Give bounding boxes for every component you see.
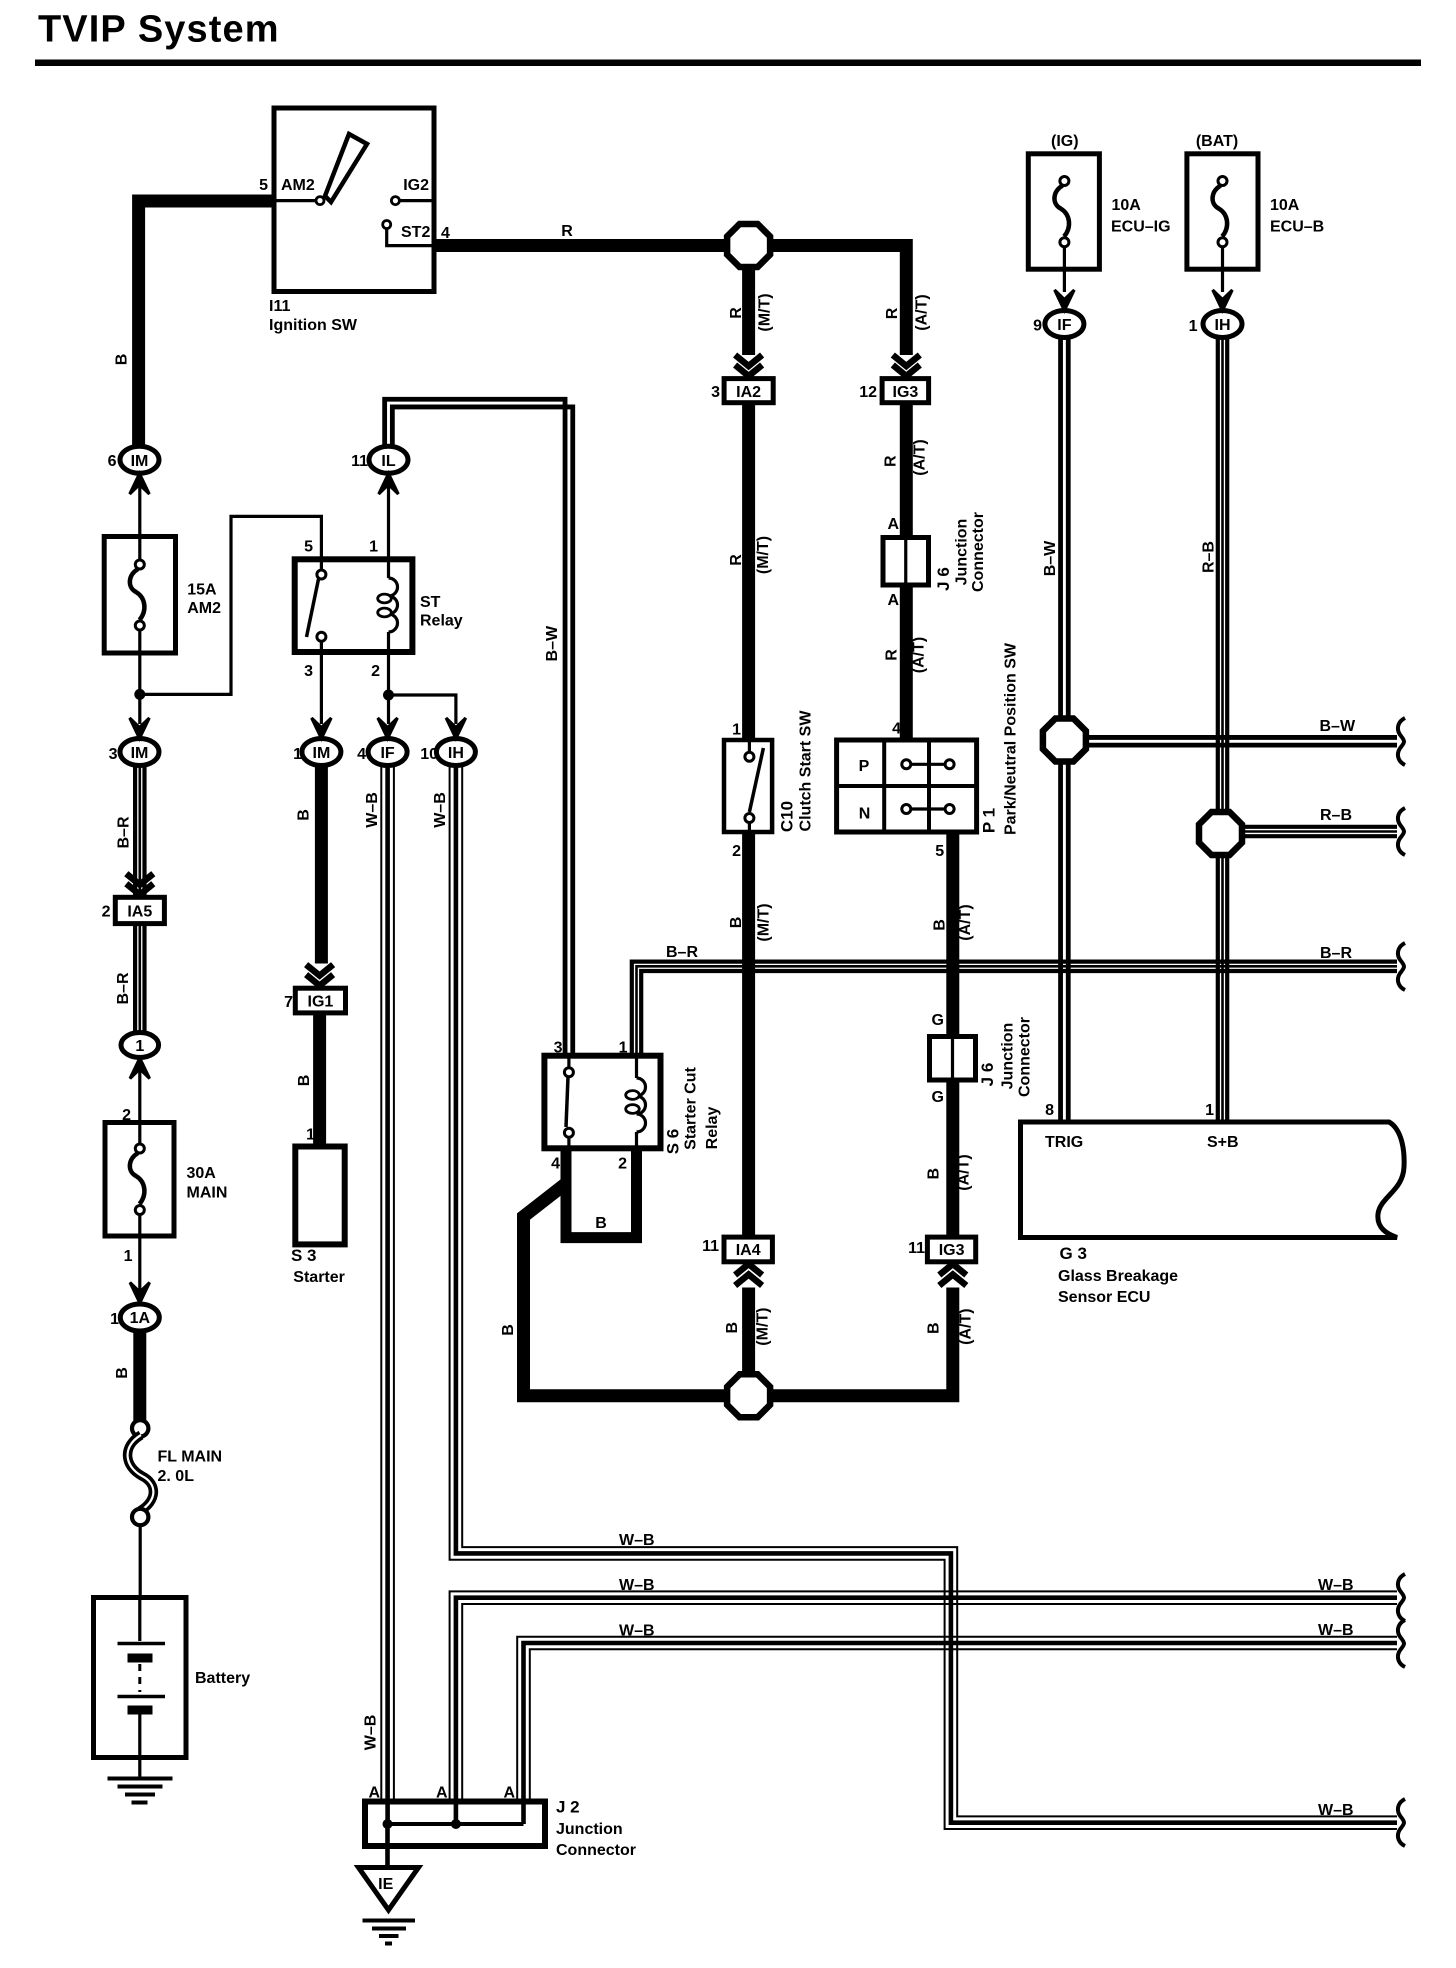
- svg-text:(A/T): (A/T): [914, 294, 931, 330]
- svg-text:IG3: IG3: [893, 384, 919, 401]
- svg-text:1: 1: [619, 1040, 628, 1057]
- svg-text:A: A: [436, 1785, 448, 1802]
- svg-text:11: 11: [351, 453, 368, 470]
- svg-text:1: 1: [110, 1311, 119, 1328]
- svg-text:IF: IF: [380, 745, 394, 762]
- svg-text:AM2: AM2: [187, 600, 221, 617]
- svg-text:B–W: B–W: [544, 625, 561, 661]
- svg-text:Park/Neutral Position SW: Park/Neutral Position SW: [1003, 642, 1020, 835]
- svg-text:IM: IM: [131, 453, 149, 470]
- svg-text:ECU–IG: ECU–IG: [1111, 219, 1171, 236]
- svg-text:B–R: B–R: [115, 972, 132, 1004]
- svg-text:ST: ST: [420, 594, 441, 611]
- svg-text:Connector: Connector: [970, 512, 987, 592]
- svg-text:B–R: B–R: [1320, 945, 1352, 962]
- svg-text:(M/T): (M/T): [755, 536, 772, 574]
- svg-text:P 1: P 1: [980, 808, 999, 833]
- svg-text:8: 8: [1045, 1102, 1054, 1119]
- svg-text:3: 3: [109, 746, 118, 763]
- svg-text:B: B: [728, 917, 745, 929]
- svg-text:W–B: W–B: [363, 1715, 380, 1751]
- svg-text:1: 1: [124, 1248, 133, 1265]
- svg-text:W–B: W–B: [1318, 1622, 1354, 1639]
- svg-text:2: 2: [102, 904, 111, 921]
- svg-text:A: A: [503, 1785, 515, 1802]
- svg-text:B: B: [296, 809, 313, 821]
- svg-text:(A/T): (A/T): [912, 439, 929, 475]
- svg-text:B–W: B–W: [1320, 718, 1356, 735]
- svg-text:W–B: W–B: [619, 1577, 655, 1594]
- svg-text:S 3: S 3: [291, 1246, 317, 1265]
- svg-text:IL: IL: [381, 453, 395, 470]
- svg-text:N: N: [859, 806, 871, 823]
- svg-text:1: 1: [1205, 1102, 1214, 1119]
- svg-text:2: 2: [122, 1107, 131, 1124]
- svg-text:12: 12: [859, 384, 877, 401]
- svg-text:10A: 10A: [1112, 197, 1142, 214]
- svg-text:Starter Cut: Starter Cut: [682, 1066, 699, 1149]
- svg-text:B: B: [926, 1168, 943, 1180]
- svg-text:Junction: Junction: [556, 1821, 623, 1838]
- svg-text:B: B: [595, 1215, 607, 1232]
- svg-text:1: 1: [135, 1038, 144, 1055]
- svg-text:TRIG: TRIG: [1045, 1134, 1083, 1151]
- svg-text:B–R: B–R: [666, 944, 698, 961]
- svg-text:3: 3: [554, 1040, 563, 1057]
- svg-text:10A: 10A: [1270, 197, 1300, 214]
- svg-text:C10: C10: [778, 801, 797, 832]
- svg-text:S+B: S+B: [1207, 1134, 1239, 1151]
- svg-text:ST2: ST2: [401, 224, 430, 241]
- svg-text:5: 5: [935, 843, 944, 860]
- svg-text:IA2: IA2: [736, 384, 761, 401]
- svg-text:B: B: [296, 1075, 313, 1087]
- svg-text:G 3: G 3: [1060, 1244, 1087, 1263]
- svg-text:R: R: [728, 307, 745, 319]
- svg-text:R: R: [728, 554, 745, 566]
- svg-text:10: 10: [420, 746, 438, 763]
- svg-text:4: 4: [441, 225, 450, 242]
- svg-text:MAIN: MAIN: [187, 1185, 228, 1202]
- svg-text:(M/T): (M/T): [757, 293, 774, 331]
- svg-text:(BAT): (BAT): [1196, 133, 1238, 150]
- svg-text:4: 4: [892, 721, 901, 738]
- svg-text:IG2: IG2: [403, 177, 429, 194]
- svg-text:B: B: [724, 1322, 741, 1334]
- svg-text:IA5: IA5: [127, 904, 152, 921]
- svg-text:FL MAIN: FL MAIN: [158, 1449, 223, 1466]
- svg-text:2. 0L: 2. 0L: [158, 1468, 195, 1485]
- svg-text:9: 9: [1033, 318, 1042, 335]
- svg-text:(A/T): (A/T): [956, 1154, 973, 1190]
- svg-text:2: 2: [732, 843, 741, 860]
- svg-text:B–R: B–R: [116, 816, 133, 848]
- svg-text:R–B: R–B: [1320, 807, 1352, 824]
- svg-text:2: 2: [618, 1156, 627, 1173]
- svg-text:J 6: J 6: [978, 1063, 997, 1087]
- svg-text:W–B: W–B: [364, 792, 381, 828]
- svg-text:G: G: [932, 1012, 944, 1029]
- svg-text:Clutch Start SW: Clutch Start SW: [798, 710, 815, 832]
- svg-text:(A/T): (A/T): [911, 637, 928, 673]
- svg-text:5: 5: [259, 177, 268, 194]
- svg-text:AM2: AM2: [281, 177, 315, 194]
- svg-text:2: 2: [371, 663, 380, 680]
- svg-text:IE: IE: [378, 1876, 393, 1893]
- svg-text:Glass Breakage: Glass Breakage: [1058, 1268, 1178, 1285]
- svg-text:Battery: Battery: [195, 1670, 250, 1687]
- svg-text:IM: IM: [313, 745, 331, 762]
- svg-text:(IG): (IG): [1051, 133, 1079, 150]
- svg-text:IA4: IA4: [736, 1242, 761, 1259]
- svg-text:4: 4: [357, 746, 366, 763]
- svg-text:A: A: [887, 516, 899, 533]
- svg-text:B: B: [114, 354, 131, 366]
- svg-text:Connector: Connector: [556, 1842, 636, 1859]
- svg-text:W–B: W–B: [1318, 1802, 1354, 1819]
- svg-text:I11: I11: [269, 298, 290, 315]
- svg-text:(M/T): (M/T): [756, 903, 773, 941]
- svg-text:Ignition SW: Ignition SW: [269, 317, 358, 334]
- svg-text:B–W: B–W: [1042, 540, 1059, 576]
- svg-text:Junction: Junction: [1000, 1023, 1017, 1090]
- svg-text:11: 11: [702, 1238, 719, 1255]
- svg-text:5: 5: [304, 539, 313, 556]
- svg-text:Starter: Starter: [293, 1269, 345, 1286]
- svg-text:Relay: Relay: [420, 613, 463, 630]
- svg-text:B: B: [926, 1322, 943, 1334]
- svg-text:B: B: [932, 919, 949, 931]
- svg-text:S 6: S 6: [663, 1129, 682, 1155]
- svg-text:(A/T): (A/T): [957, 1308, 974, 1344]
- svg-text:4: 4: [551, 1156, 560, 1173]
- svg-text:TVIP System: TVIP System: [38, 9, 280, 51]
- svg-text:W–B: W–B: [1318, 1577, 1354, 1594]
- svg-text:R: R: [561, 223, 573, 240]
- svg-text:IH: IH: [1215, 317, 1231, 334]
- svg-text:1: 1: [732, 722, 741, 739]
- svg-text:R: R: [883, 455, 900, 467]
- svg-text:30A: 30A: [187, 1165, 217, 1182]
- svg-text:J 6: J 6: [934, 567, 953, 591]
- svg-text:Sensor ECU: Sensor ECU: [1058, 1289, 1150, 1306]
- svg-text:IF: IF: [1057, 317, 1071, 334]
- svg-text:7: 7: [284, 994, 293, 1011]
- svg-text:15A: 15A: [187, 582, 217, 599]
- svg-text:6: 6: [108, 453, 117, 470]
- svg-text:J 2: J 2: [556, 1798, 580, 1817]
- svg-text:3: 3: [304, 663, 313, 680]
- svg-text:Connector: Connector: [1017, 1017, 1034, 1097]
- svg-text:R: R: [884, 307, 901, 319]
- svg-text:B: B: [114, 1367, 131, 1379]
- svg-text:(A/T): (A/T): [957, 904, 974, 940]
- svg-text:R–B: R–B: [1201, 541, 1218, 573]
- svg-text:Junction: Junction: [954, 519, 971, 586]
- svg-text:W–B: W–B: [619, 1532, 655, 1549]
- svg-text:IM: IM: [131, 745, 149, 762]
- svg-text:1: 1: [293, 746, 302, 763]
- svg-text:1: 1: [306, 1127, 315, 1144]
- svg-text:IG3: IG3: [939, 1242, 965, 1259]
- svg-text:1: 1: [1189, 318, 1198, 335]
- svg-text:P: P: [859, 758, 870, 775]
- svg-text:1: 1: [369, 539, 378, 556]
- svg-text:11: 11: [908, 1240, 925, 1257]
- svg-text:W–B: W–B: [432, 792, 449, 828]
- svg-text:ECU–B: ECU–B: [1270, 219, 1324, 236]
- svg-text:G: G: [932, 1089, 944, 1106]
- svg-text:(M/T): (M/T): [755, 1307, 772, 1345]
- svg-text:Relay: Relay: [704, 1107, 721, 1150]
- svg-text:R: R: [884, 649, 901, 661]
- svg-text:IH: IH: [448, 745, 464, 762]
- svg-text:1A: 1A: [130, 1310, 151, 1327]
- svg-text:3: 3: [711, 384, 720, 401]
- svg-text:W–B: W–B: [619, 1623, 655, 1640]
- svg-text:B: B: [500, 1324, 517, 1336]
- svg-text:IG1: IG1: [308, 994, 334, 1011]
- svg-text:A: A: [368, 1785, 380, 1802]
- svg-text:A: A: [887, 592, 899, 609]
